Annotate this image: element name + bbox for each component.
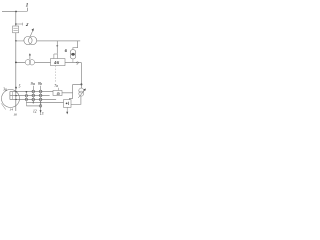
- wire main vertical middle: [15, 33, 17, 111]
- box 2: [53, 91, 62, 96]
- node dots on main in machine: [15, 91, 16, 100]
- svg-text:2: 2: [25, 23, 29, 28]
- transformer T3 winding bottom: [79, 91, 84, 96]
- wire drop to staple: [56, 41, 58, 54]
- wire box2 to bracket: [62, 92, 73, 94]
- wire top supply bus: [2, 11, 16, 13]
- svg-text:4/6: 4/6: [53, 60, 59, 65]
- svg-text:5: 5: [19, 84, 21, 88]
- transformer T1 winding left: [24, 36, 32, 44]
- box 3: [64, 100, 72, 108]
- wire brush b vertical: [39, 86, 42, 113]
- machine feed arrowhead: [15, 87, 17, 90]
- svg-text:1: 1: [26, 4, 29, 9]
- terminal 2 tap: [15, 23, 22, 26]
- node junction bus/main: [15, 11, 17, 13]
- wire bracket vertical to box 3: [70, 85, 73, 100]
- wire T3 bottom lead: [71, 96, 81, 104]
- transformer T4 core mark: [72, 53, 75, 56]
- wire line E lower: [26, 105, 40, 107]
- transformer T2 winding left: [25, 60, 30, 65]
- staple link on box top: [54, 54, 58, 58]
- node junction right: [80, 83, 82, 85]
- dashed link from box 4: [55, 66, 57, 83]
- transformer T2 winding right: [29, 60, 34, 65]
- node junction transformer tap: [15, 40, 17, 42]
- transformer T3 winding top: [79, 88, 84, 93]
- svg-text:9: 9: [76, 60, 78, 65]
- transformer T2 adjust arrow: [29, 53, 31, 59]
- node tap dot on line: [56, 45, 58, 47]
- wire main vertical upper: [15, 12, 17, 27]
- wire corner to transformer T4: [73, 41, 78, 50]
- wire line from T1 to right: [37, 40, 80, 42]
- transformer T1 winding right: [28, 36, 36, 44]
- wire box3 down arrow: [66, 107, 68, 114]
- wire bracket horizontal: [73, 84, 82, 86]
- machine shaft stub: [1, 103, 6, 109]
- svg-text:7a: 7a: [54, 84, 58, 88]
- machine armature line A: [10, 91, 53, 93]
- machine winding mid vertical: [12, 92, 14, 100]
- wire T2 to box 4: [35, 62, 51, 64]
- box 4 regulator: [51, 59, 66, 66]
- svg-text:4b: 4b: [57, 92, 61, 96]
- machine M big circle: [2, 90, 20, 108]
- wire label leader tick: [58, 88, 60, 91]
- node junction T2 tap: [15, 62, 17, 64]
- fuse F1 box: [13, 26, 19, 33]
- svg-text:13: 13: [40, 112, 44, 116]
- transformer T1 adjust arrow: [30, 28, 34, 36]
- machine armature line C: [10, 99, 56, 101]
- svg-text:9b: 9b: [38, 81, 42, 86]
- svg-text:3a: 3a: [3, 88, 7, 92]
- svg-text:16: 16: [13, 112, 17, 116]
- wire box4 to right corner: [65, 62, 81, 64]
- wire main to transformer T2: [16, 62, 25, 64]
- wire T4 bottom stub: [72, 59, 74, 63]
- node terminal 1 stub: [26, 8, 28, 11]
- wire branch to transformer T1: [16, 40, 24, 42]
- svg-text:9a: 9a: [31, 81, 35, 86]
- transformer T4 winding top: [70, 50, 76, 56]
- wire right vertical drop: [80, 63, 82, 89]
- wire brush c vertical: [25, 91, 27, 106]
- svg-text:14: 14: [9, 108, 13, 112]
- wire brush a vertical: [32, 86, 35, 104]
- wire line D lower: [26, 102, 63, 104]
- svg-text:6: 6: [65, 48, 68, 53]
- transformer T4 winding bottom: [70, 53, 76, 59]
- machine winding left vertical: [9, 92, 11, 100]
- svg-text:12: 12: [33, 110, 37, 114]
- transformer T3 adjust arrow: [78, 89, 86, 98]
- machine armature line B: [10, 95, 50, 97]
